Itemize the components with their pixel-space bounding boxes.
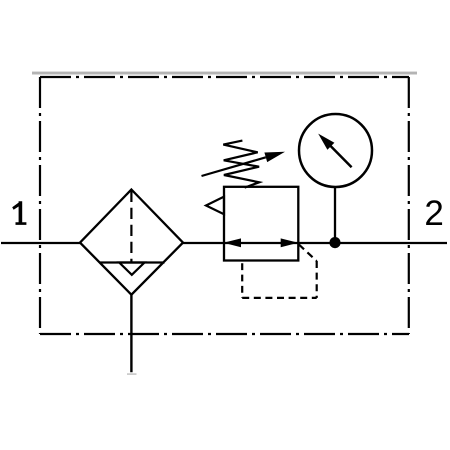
filter F1 diamond body xyxy=(80,190,183,295)
wire main flow line right segment xyxy=(183,242,448,244)
regulator right arrowhead xyxy=(281,238,299,247)
port label 1 xyxy=(12,201,26,225)
regulator spring xyxy=(223,141,259,188)
junction node xyxy=(329,237,340,248)
pilot dashed line bottom horizontal xyxy=(242,297,317,299)
regulator left arrowhead xyxy=(223,238,241,247)
gray top edge line xyxy=(32,72,417,75)
svg-text:2: 2 xyxy=(424,194,443,233)
drain line end tick xyxy=(127,373,137,375)
wire main flow line left segment xyxy=(1,242,81,244)
wire manual drain line xyxy=(130,295,132,373)
filter bowl separator line xyxy=(100,261,165,263)
pressure gauge G1 dial xyxy=(299,114,372,187)
enclosure dash-dot frame top xyxy=(40,76,409,78)
filter element dashed line xyxy=(130,191,132,263)
adjustment arrow head xyxy=(264,152,285,162)
wire gauge stem xyxy=(334,187,336,243)
filter drain triangle xyxy=(119,263,144,275)
regulator relief vent triangle xyxy=(206,197,224,215)
enclosure dash-dot frame left xyxy=(39,77,41,334)
regulator R1 body xyxy=(224,187,298,261)
port label 2 xyxy=(424,194,443,233)
pilot dashed line diagonal xyxy=(299,245,317,262)
pilot dashed line right vertical xyxy=(316,261,318,298)
gauge needle shaft xyxy=(329,144,352,167)
enclosure dash-dot frame bottom xyxy=(40,333,409,335)
adjustment arrow shaft xyxy=(202,157,266,176)
pilot dashed line left vertical xyxy=(241,263,243,298)
enclosure dash-dot frame right xyxy=(408,77,410,334)
gauge needle head xyxy=(318,134,334,150)
